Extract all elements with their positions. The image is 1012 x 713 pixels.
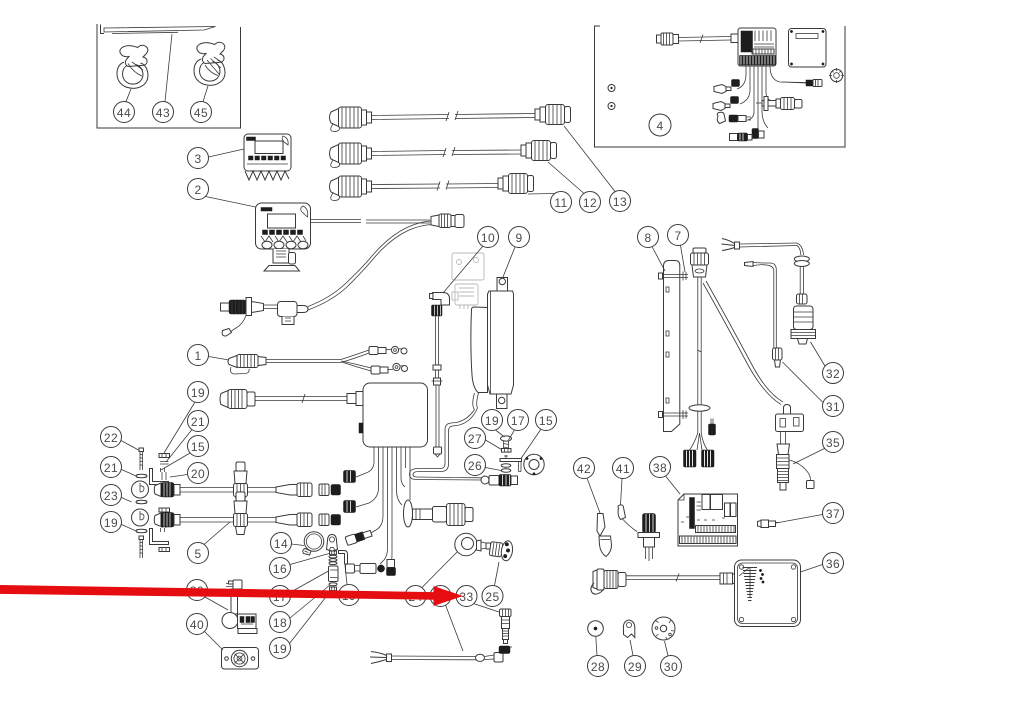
callout 33 bbox=[456, 586, 499, 613]
callout 17 sensor bbox=[508, 410, 529, 441]
leader 30 bbox=[665, 641, 669, 656]
leader 9 bbox=[503, 247, 515, 277]
callout 14 bbox=[271, 533, 305, 554]
callout 16 bbox=[270, 554, 330, 579]
callout 19 bracket bbox=[339, 565, 360, 606]
cable row3 left connector bbox=[330, 176, 372, 201]
box cable connector bbox=[591, 569, 626, 594]
item5 rowB left connector bbox=[154, 513, 180, 528]
svg-text:21: 21 bbox=[104, 461, 118, 475]
fork cable bbox=[370, 646, 512, 664]
cable row1 wire bbox=[372, 111, 536, 121]
leader 16 bbox=[290, 554, 329, 565]
bracket item 39 bbox=[222, 580, 257, 634]
item 6 jack bbox=[709, 419, 716, 436]
callout 19 colR bbox=[164, 382, 209, 454]
callout 43 bbox=[153, 34, 174, 123]
callout 2 bbox=[188, 179, 256, 208]
right small connector d bbox=[782, 80, 822, 87]
svg-text:16: 16 bbox=[273, 562, 287, 576]
nut b bbox=[159, 508, 170, 512]
ECU cover plate bbox=[789, 29, 827, 68]
manifold wire E bbox=[391, 447, 392, 563]
ghost relay box bbox=[452, 253, 484, 309]
leader 1 bbox=[209, 357, 230, 361]
leader 19l bbox=[122, 525, 137, 532]
barrel a bbox=[732, 80, 740, 87]
connector item 25 bbox=[489, 539, 514, 562]
svg-text:26: 26 bbox=[468, 459, 482, 473]
svg-text:27: 27 bbox=[468, 432, 482, 446]
grommet b bbox=[132, 509, 149, 526]
svg-text:5: 5 bbox=[194, 547, 201, 561]
item5 rowA cable bbox=[180, 488, 276, 493]
washer disc item 28 bbox=[588, 621, 604, 637]
wire2 path bbox=[763, 263, 776, 348]
svg-text:40: 40 bbox=[190, 618, 204, 632]
flow sensor feed connector bbox=[481, 476, 499, 486]
leader 36 bbox=[801, 565, 823, 573]
manifold control box bbox=[359, 383, 428, 447]
item5 rowB tee bbox=[234, 492, 248, 535]
stack nut lower bbox=[330, 587, 337, 591]
svg-text:25: 25 bbox=[485, 590, 499, 604]
leader 19r bbox=[164, 402, 195, 453]
svg-text:23: 23 bbox=[104, 489, 118, 503]
ferrite collar bbox=[794, 256, 809, 267]
manifold wire F bbox=[397, 447, 403, 505]
solenoid coil item 32 bbox=[791, 306, 816, 344]
washer pair a bbox=[136, 474, 147, 478]
cable row1 right connector bbox=[535, 105, 571, 125]
console 2 mount bbox=[273, 249, 289, 263]
leader 15s bbox=[521, 429, 541, 459]
cable row2 wire bbox=[372, 147, 522, 157]
callout 15 colR bbox=[161, 436, 209, 471]
callout 19 left bbox=[101, 512, 137, 533]
leader 10 bbox=[443, 246, 483, 293]
svg-text:12: 12 bbox=[583, 196, 597, 210]
power plug assembly bbox=[221, 298, 309, 337]
cable ferrule bbox=[432, 365, 443, 385]
inline plug item 37 bbox=[758, 520, 780, 528]
svg-text:45: 45 bbox=[194, 106, 208, 120]
item 10 cable lower bbox=[436, 385, 439, 447]
leader 19b bbox=[345, 565, 347, 585]
callout 9 bbox=[503, 227, 530, 278]
harness branch connector lower bbox=[371, 363, 408, 374]
cable row1 left connector bbox=[330, 107, 372, 132]
clip item 45 bbox=[194, 42, 225, 85]
callout 21 left bbox=[101, 457, 137, 478]
callout 36 bbox=[801, 553, 844, 574]
harness item 1 wire bbox=[266, 360, 341, 363]
coil connector bbox=[797, 294, 808, 304]
callout 31 bbox=[783, 362, 844, 417]
flow sensor body bbox=[499, 475, 518, 487]
cable row2 left connector bbox=[330, 143, 372, 168]
callout 15 sensor bbox=[521, 410, 557, 459]
L-bracket b bbox=[150, 528, 169, 545]
callout 21 colR bbox=[166, 411, 209, 463]
console box cable connector left bbox=[220, 390, 255, 409]
manifold wire B bbox=[356, 447, 379, 507]
svg-text:33: 33 bbox=[459, 590, 473, 604]
item5 rowB cable bbox=[180, 518, 276, 523]
leader hidden bbox=[446, 605, 464, 651]
svg-text:15: 15 bbox=[539, 414, 553, 428]
leader 41 bbox=[621, 479, 623, 506]
leader 40 bbox=[205, 632, 224, 651]
item 6 brush left bbox=[684, 450, 697, 467]
leader 38 bbox=[666, 476, 681, 494]
svg-text:1: 1 bbox=[194, 349, 201, 363]
callout 12 bbox=[548, 162, 601, 213]
console item 2 bbox=[256, 203, 311, 271]
callout 35 bbox=[793, 432, 844, 465]
leader 33 bbox=[474, 604, 500, 613]
console item 3 bbox=[244, 134, 291, 180]
nut c bbox=[159, 548, 170, 552]
svg-text:30: 30 bbox=[664, 660, 678, 674]
screw symbol b bbox=[608, 103, 615, 110]
leader 32 bbox=[811, 342, 826, 366]
callout 37 bbox=[776, 503, 844, 524]
right angle connector f bbox=[752, 129, 764, 139]
stud a bbox=[162, 472, 166, 480]
callout 44 bbox=[114, 89, 135, 123]
leader 2 bbox=[206, 197, 256, 208]
item5 rowB boot bbox=[276, 513, 312, 527]
harness item 1 connector bbox=[228, 355, 266, 375]
leader 45 bbox=[203, 86, 208, 102]
svg-text:13: 13 bbox=[613, 195, 627, 209]
fuse holder bbox=[278, 302, 298, 317]
power cable curve to connector bbox=[308, 221, 431, 307]
long pin item 43 bbox=[101, 25, 216, 34]
item 6 brush right bbox=[702, 450, 715, 467]
callout 8 bbox=[638, 227, 666, 272]
manifold wire A bbox=[356, 447, 374, 477]
ring terminal item 24 bbox=[455, 533, 491, 555]
stack washer lower bbox=[329, 583, 337, 586]
callout 7 bbox=[668, 225, 689, 273]
L-bracket a bbox=[150, 468, 169, 485]
sensor flange disc bbox=[524, 454, 544, 475]
svg-text:17: 17 bbox=[511, 414, 525, 428]
box cable bbox=[626, 574, 720, 582]
item 6 shaft lower bbox=[698, 411, 701, 433]
callout 19 mid bbox=[270, 591, 332, 659]
callout 13 bbox=[564, 126, 631, 212]
sensor screw bbox=[501, 436, 512, 452]
spade terminal a bbox=[714, 85, 731, 94]
leader 21r bbox=[166, 430, 192, 463]
callout 24 bbox=[405, 552, 457, 607]
L-bracket mid bbox=[339, 551, 348, 565]
leader 27 bbox=[486, 440, 502, 450]
callout 25 bbox=[482, 562, 503, 607]
leader 25 bbox=[495, 562, 500, 586]
actuator cable bbox=[473, 393, 479, 410]
wire2 terminal bbox=[745, 262, 764, 267]
callout 28 bbox=[588, 637, 609, 677]
leader 19s bbox=[496, 430, 505, 437]
svg-text:19: 19 bbox=[191, 386, 205, 400]
elbow connector item 10 bbox=[430, 293, 450, 317]
ECU feed cable bbox=[679, 35, 732, 44]
callout 11 bbox=[528, 192, 572, 213]
leader 14 bbox=[292, 544, 305, 546]
callout 27 bbox=[465, 428, 502, 450]
leader 43 bbox=[165, 34, 172, 102]
wedge clip c bbox=[717, 112, 725, 123]
svg-text:38: 38 bbox=[653, 461, 667, 475]
clip item 41 bbox=[618, 505, 637, 532]
fork terminal top bbox=[722, 239, 804, 256]
svg-text:14: 14 bbox=[274, 537, 288, 551]
svg-text:42: 42 bbox=[577, 462, 591, 476]
sensor bracket bbox=[500, 455, 522, 472]
screw bottom bbox=[139, 536, 144, 558]
temperature probe item 41 bbox=[638, 514, 660, 562]
washer pair b bbox=[136, 500, 147, 504]
svg-text:8: 8 bbox=[644, 231, 651, 245]
leader 44 bbox=[126, 89, 131, 102]
nut a bbox=[159, 454, 170, 458]
console2 cable connector right bbox=[431, 214, 464, 228]
svg-text:7: 7 bbox=[674, 229, 681, 243]
svg-text:15: 15 bbox=[191, 440, 205, 454]
callout hidden bbox=[430, 586, 463, 652]
screw item 7 bottom bbox=[659, 410, 689, 419]
screw top bbox=[139, 448, 144, 470]
leader 18 bbox=[290, 585, 330, 618]
clip item 44 bbox=[117, 45, 148, 88]
callout 39 bbox=[187, 580, 229, 611]
svg-text:37: 37 bbox=[826, 507, 840, 521]
washer pair c bbox=[136, 529, 147, 533]
leader 22 bbox=[121, 441, 139, 451]
callout 19 sensor bbox=[482, 410, 505, 438]
console box feed wire bbox=[255, 394, 347, 403]
item 6 split bundle bbox=[690, 433, 708, 450]
svg-text:44: 44 bbox=[117, 106, 131, 120]
leader 13 bbox=[564, 126, 615, 192]
item 6 disc bbox=[689, 405, 710, 411]
pcb board item 38 bbox=[678, 494, 738, 546]
svg-text:20: 20 bbox=[191, 467, 205, 481]
red arrow bbox=[0, 585, 463, 606]
leader 35 bbox=[793, 449, 825, 465]
leader 3 bbox=[209, 149, 245, 157]
washer a2 bbox=[160, 462, 169, 465]
manifold wire H bbox=[405, 447, 407, 468]
callout 3 bbox=[188, 148, 245, 169]
screw item 7 top bbox=[659, 272, 689, 281]
svg-text:11: 11 bbox=[554, 196, 567, 210]
item 10 cable down bbox=[436, 316, 439, 378]
junction box item 36 bbox=[735, 560, 801, 627]
callout 29 bbox=[625, 640, 646, 677]
callout 5 bbox=[188, 522, 231, 564]
svg-text:28: 28 bbox=[591, 660, 605, 674]
boom bracket item 8 bbox=[664, 261, 680, 432]
item5 rowA tee bbox=[234, 462, 248, 505]
ECU hanging wires bbox=[737, 66, 806, 135]
sensor washers bbox=[501, 464, 511, 473]
manifold sensor conn C bbox=[345, 529, 373, 546]
manifold square conn A bbox=[344, 471, 356, 483]
leader 42 bbox=[587, 478, 600, 513]
svg-text:10: 10 bbox=[481, 231, 495, 245]
stud b bbox=[162, 521, 166, 528]
leader 29 bbox=[630, 640, 633, 656]
clip item 29 bbox=[623, 620, 635, 638]
svg-text:19: 19 bbox=[485, 414, 499, 428]
leader 23 bbox=[122, 498, 132, 503]
washer b2 bbox=[160, 516, 169, 519]
leader 7 bbox=[681, 246, 686, 273]
cable row2 right connector bbox=[521, 141, 557, 161]
callout 32 bbox=[811, 342, 844, 384]
callout 4 bbox=[649, 114, 671, 136]
wire to coil bbox=[800, 266, 803, 294]
item 6 shaft bbox=[698, 277, 701, 406]
item 6 top connector bbox=[691, 248, 709, 277]
leader 37 bbox=[776, 515, 823, 524]
cable gland bbox=[720, 573, 739, 584]
sensor nut bbox=[502, 449, 512, 453]
leader 31 bbox=[783, 362, 824, 403]
leader 24 bbox=[422, 552, 457, 588]
screw symbol a bbox=[608, 85, 615, 92]
callout 41 bbox=[613, 458, 634, 506]
item5 rowA left connector bbox=[154, 483, 180, 498]
leader 21l bbox=[122, 470, 137, 477]
callout 23 bbox=[101, 485, 132, 506]
svg-text:19: 19 bbox=[104, 516, 118, 530]
svg-text:2: 2 bbox=[194, 183, 201, 197]
nozzle clip item 42 bbox=[597, 514, 612, 557]
svg-text:21: 21 bbox=[191, 415, 205, 429]
leader 39 bbox=[205, 597, 228, 610]
rotor disc item 30 bbox=[652, 617, 675, 640]
manifold inlet port bbox=[347, 392, 363, 406]
leader 15r bbox=[161, 453, 190, 470]
solenoid body 17 bbox=[329, 566, 339, 582]
svg-text:3: 3 bbox=[194, 152, 201, 166]
svg-text:18: 18 bbox=[273, 616, 287, 630]
leader 19m bbox=[290, 591, 332, 644]
callout 17 mid bbox=[270, 571, 329, 607]
callout 26 bbox=[465, 455, 502, 476]
callout 22 bbox=[101, 427, 139, 451]
inline sensor c bbox=[729, 115, 751, 122]
inset frame item 4 bbox=[595, 26, 846, 147]
plug pigtail bbox=[230, 316, 247, 334]
callout 45 bbox=[191, 86, 212, 123]
harness branch connector upper bbox=[369, 346, 407, 354]
callout 30 bbox=[661, 641, 682, 677]
manifold sensor conn D bbox=[346, 564, 385, 574]
callout 40 bbox=[187, 614, 224, 651]
stack washers bbox=[329, 555, 337, 564]
svg-text:22: 22 bbox=[104, 431, 118, 445]
manifold wire G bbox=[401, 447, 405, 487]
console2 right cable bbox=[311, 220, 431, 224]
svg-text:41: 41 bbox=[616, 462, 630, 476]
inline connector g bbox=[730, 133, 753, 141]
leader 26 bbox=[486, 468, 502, 471]
item5 rowB mate pair bbox=[319, 514, 341, 526]
ECU feed cable connector bbox=[657, 33, 679, 45]
svg-text:32: 32 bbox=[826, 367, 840, 381]
manifold wire C bbox=[369, 447, 383, 534]
flow meter item 40 bbox=[222, 648, 259, 670]
connector item 31 bbox=[773, 348, 783, 367]
manifold square conn B bbox=[344, 501, 356, 513]
manifold elbow conn E bbox=[387, 560, 396, 576]
leader 8 bbox=[652, 247, 665, 272]
cable row3 right connector bbox=[498, 174, 534, 194]
manifold wire D bbox=[380, 447, 388, 564]
harness item 1 split bbox=[341, 350, 371, 371]
svg-text:36: 36 bbox=[826, 557, 840, 571]
calibration target symbol bbox=[829, 68, 844, 83]
actuator item 9 body bbox=[471, 278, 514, 409]
callout 42 bbox=[574, 458, 601, 514]
svg-text:29: 29 bbox=[628, 660, 642, 674]
leader 17m bbox=[290, 571, 329, 593]
manifold wire I bbox=[409, 447, 411, 500]
svg-text:31: 31 bbox=[826, 400, 840, 414]
cable row3 wire bbox=[372, 181, 499, 191]
callout 10 bbox=[443, 227, 499, 294]
probe item 33 bbox=[500, 609, 512, 644]
spade terminal b bbox=[713, 102, 730, 111]
leader 11 bbox=[528, 193, 555, 196]
leader 20r bbox=[170, 475, 188, 478]
callout 20 colR bbox=[170, 463, 209, 484]
svg-text:4: 4 bbox=[656, 119, 663, 133]
svg-text:19: 19 bbox=[273, 642, 287, 656]
solenoid plunger item 35 bbox=[776, 405, 815, 491]
hose clamp item 14 bbox=[303, 532, 324, 555]
leader 17s bbox=[509, 430, 515, 440]
leader 5 bbox=[204, 522, 230, 545]
ECU control box item 4 bbox=[738, 28, 776, 66]
inset frame top-left bbox=[97, 24, 241, 128]
wedge clip 16 bbox=[327, 535, 338, 552]
callout 1 bbox=[188, 345, 230, 366]
callout 18 bbox=[270, 585, 331, 633]
leader 28 bbox=[596, 637, 597, 656]
barrel b bbox=[731, 97, 739, 104]
item5 rowA boot bbox=[276, 483, 312, 497]
svg-text:9: 9 bbox=[515, 231, 522, 245]
item5 rowA mate pair bbox=[319, 484, 341, 496]
svg-text:35: 35 bbox=[826, 436, 840, 450]
long cable to solenoid 35 bbox=[703, 281, 783, 405]
svg-text:43: 43 bbox=[156, 106, 170, 120]
stack nut top bbox=[330, 551, 337, 554]
tee fitting assembly e bbox=[756, 97, 802, 111]
callout 38 bbox=[650, 457, 681, 495]
grommet a bbox=[132, 481, 149, 498]
filter assembly bbox=[404, 500, 474, 527]
ECU cable nut bbox=[731, 34, 738, 43]
